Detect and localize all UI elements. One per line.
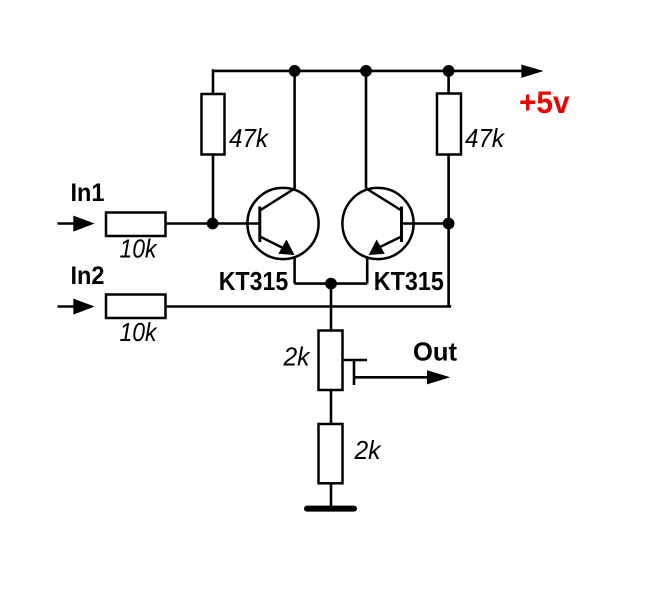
- wire rail down to R2 top: [447, 69, 450, 93]
- node A junction dot: [207, 218, 219, 230]
- arrow In2 input arrowhead: [73, 299, 94, 315]
- wire emitter bus horizontal: [295, 282, 368, 285]
- wire Q1 emitter down: [293, 257, 296, 284]
- wire Q1 collector to rail: [293, 69, 296, 188]
- svg-text:KT315: KT315: [374, 268, 444, 296]
- Q2 collector line: [366, 188, 402, 210]
- wire output line: [354, 376, 430, 379]
- wire top supply rail: [213, 70, 524, 73]
- Q2 emitter line: [377, 237, 402, 249]
- wire emitter node down to R5: [330, 284, 333, 331]
- node emitter junction dot: [325, 278, 337, 290]
- wire In1 input stub: [58, 222, 79, 225]
- svg-text:Out: Out: [413, 336, 457, 366]
- wire R1 bottom to node A: [212, 155, 215, 224]
- transistor Q1 KT315: [247, 188, 318, 259]
- Q2 emitter arrow: [369, 240, 385, 256]
- node rail junction dot 2: [360, 65, 372, 77]
- arrow In1 input arrowhead: [73, 216, 94, 232]
- Q1 base bar: [258, 207, 261, 243]
- wire In2 long net to right branch: [166, 305, 450, 307]
- svg-text:47k: 47k: [465, 123, 506, 153]
- resistor R6 2k body: [319, 424, 343, 483]
- wire R5 to R6: [330, 390, 333, 424]
- resistor R2 47k body: [437, 94, 461, 155]
- svg-text:10k: 10k: [120, 317, 159, 347]
- svg-text:+5v: +5v: [519, 84, 570, 120]
- wire Q2 collector to rail: [365, 69, 368, 188]
- arrow +5v supply arrowhead: [521, 65, 543, 78]
- wire from rail down to R1 top: [212, 69, 215, 94]
- wire R2 bottom down to In2 net: [447, 155, 450, 307]
- wire R6 to ground: [330, 483, 333, 507]
- svg-text:2k: 2k: [283, 341, 312, 371]
- transistor Q2 KT315 (mirrored): [342, 188, 413, 259]
- wire output tap vertical bar: [353, 360, 356, 385]
- Q1 emitter line: [260, 237, 284, 249]
- node rail junction dot 3: [443, 65, 455, 77]
- svg-text:In1: In1: [71, 179, 105, 207]
- resistor R5 2k body: [319, 331, 343, 391]
- wire In2 input stub: [58, 305, 79, 308]
- resistor R1 47k body: [202, 94, 225, 155]
- svg-text:47k: 47k: [229, 123, 270, 153]
- resistor R3 10k body: [106, 213, 166, 237]
- svg-text:In2: In2: [71, 262, 105, 290]
- ground bar: [307, 506, 354, 512]
- wire output tap horizontal: [343, 359, 368, 362]
- arrow Out arrowhead: [427, 370, 450, 384]
- Q1 body circle: [247, 188, 318, 259]
- Q1 emitter arrow: [278, 240, 294, 256]
- svg-text:10k: 10k: [120, 234, 159, 264]
- Q2 body circle: [342, 188, 413, 259]
- node rail junction dot 1: [289, 65, 301, 77]
- wire Q2 base to node B: [402, 222, 449, 225]
- svg-text:2k: 2k: [354, 435, 383, 465]
- Q2 base bar: [400, 207, 403, 243]
- node B junction dot: [443, 218, 455, 230]
- wire Q2 emitter down: [366, 257, 369, 284]
- wire R3 to Q1 base: [166, 222, 260, 225]
- svg-text:KT315: KT315: [219, 268, 288, 296]
- resistor R4 10k body: [106, 295, 166, 319]
- Q1 collector line: [260, 188, 295, 210]
